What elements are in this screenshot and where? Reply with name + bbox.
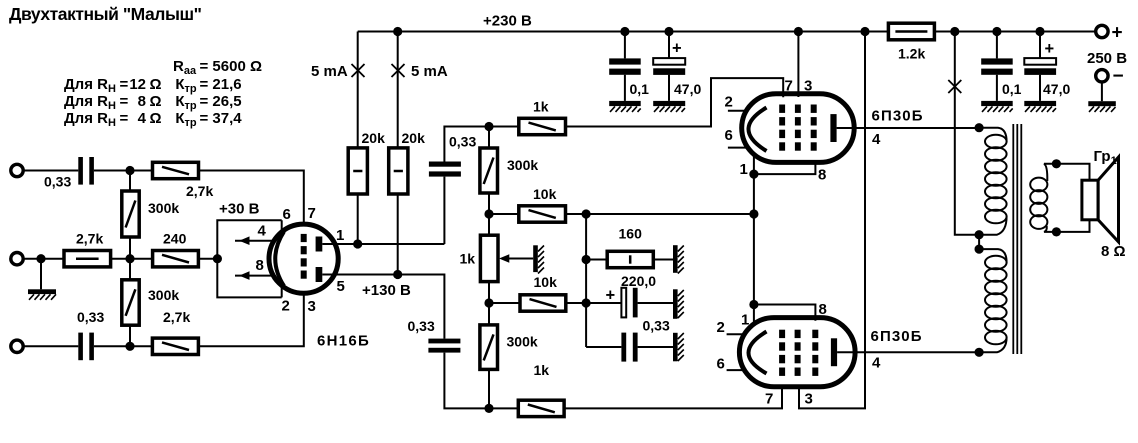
svg-text:2: 2 [717,319,725,336]
svg-text:220,0: 220,0 [621,273,656,289]
svg-text:2,7k: 2,7k [163,309,190,325]
svg-text:1k: 1k [460,251,476,267]
svg-text:4: 4 [258,223,267,240]
capacitor 47,0 right electrolytic [1039,32,1041,101]
resistor 300k lower-left [129,259,131,280]
resistor 300k middle [488,127,490,149]
wire C2 to node [94,345,152,347]
wire 1k bottom to lower output grid [564,386,782,409]
resistor 20k left [348,148,367,194]
svg-text:4: 4 [872,355,881,372]
wire V1 anode2 to lower coupling cap [322,275,444,339]
wire 2,7k to grid pin7 [199,171,304,225]
current mark x center-tap [948,80,961,93]
svg-text:300k: 300k [507,157,538,173]
resistor 1k bottom [518,400,564,416]
node mid-left [36,254,45,263]
resistor 300k lower [480,325,498,370]
svg-text:1: 1 [740,161,748,178]
svg-text:5: 5 [337,278,345,295]
svg-text:1: 1 [336,227,344,244]
svg-text:+230 В: +230 В [483,13,532,30]
V3 grid dashes g1 [779,330,785,376]
svg-text:+: + [606,287,616,305]
svg-text:7: 7 [765,391,773,408]
svg-text:5 mA: 5 mA [311,63,348,80]
ground minus terminal [1101,82,1103,101]
resistor 1k upper [519,118,566,134]
pot wiper arrow [508,258,533,260]
svg-text:4: 4 [872,131,881,148]
resistor 10k upper [489,213,519,215]
current mark x left [352,64,365,77]
svg-text:6: 6 [717,356,725,373]
node C [484,298,493,307]
tube V1 6N16B envelope [269,224,338,293]
V3 grid dashes g3 [812,330,818,376]
wire cap to node A and 1k [444,127,518,162]
svg-text:+: + [1112,23,1123,44]
T1 primary upper winding [979,128,1007,142]
svg-text:+130 В: +130 В [362,282,411,299]
svg-text:7: 7 [308,205,316,222]
svg-text:0,33: 0,33 [449,134,476,150]
V3 screen wire to rail [799,32,865,409]
V1 anode bar lower [316,267,323,282]
chassis for 0,33 cathode [673,333,678,362]
V1 grid dashes [301,234,307,279]
svg-text:10k: 10k [533,186,557,202]
ground input [40,259,42,290]
V3 grid dashes g2 [795,330,801,376]
wire terminal top to C1 [24,170,79,172]
svg-text:3: 3 [805,391,813,408]
capacitor 0,33 input top [78,157,83,185]
resistor 2,7k bottom [152,338,198,354]
wire 1k to upper output grid [566,78,784,126]
wire 10k to cathode column [566,213,754,215]
ground 47,0 left [653,101,685,106]
capacitor 220,0 electrolytic [586,302,621,304]
input terminal middle [11,253,23,265]
wire pot bottom [488,282,490,325]
speaker Gr1 [1082,180,1098,220]
T1 center tap link [978,235,980,249]
resistor 20k right [389,148,408,194]
node D [484,404,493,413]
T1 primary lower winding [979,249,1007,262]
current mark x right [392,64,405,77]
coupling capacitor 0,33 lower [428,339,460,344]
svg-text:2,7k: 2,7k [76,231,103,247]
T1 secondary winding [1044,164,1056,181]
svg-text:240: 240 [163,231,187,247]
tube V2 6P30B upper envelope [742,94,855,163]
V2 anode bar [830,114,836,142]
svg-text:0,33: 0,33 [408,318,435,334]
cathode network column [585,214,587,347]
chassis for 220,0 [673,289,678,319]
svg-text:8: 8 [818,167,826,184]
svg-text:6П30Б: 6П30Б [872,108,924,125]
svg-text:6: 6 [725,127,733,144]
transformer T1 core [1013,124,1021,354]
node A [484,122,493,131]
resistor 10k lower [489,302,520,304]
capacitor 0,1 right [996,32,998,101]
svg-text:10k: 10k [534,274,558,290]
capacitor 0,33 cathode [586,346,621,348]
V1 cathode arc [275,232,284,287]
svg-text:Двухтактный "Малыш": Двухтактный "Малыш" [9,4,202,24]
svg-text:7: 7 [785,78,793,95]
svg-text:8: 8 [819,301,827,318]
V2 grid dashes g1 [779,105,785,151]
svg-text:Для RН=4ΩКтр= 37,4: Для RН=4ΩКтр= 37,4 [64,110,242,129]
node bottom input [125,342,134,351]
svg-text:3: 3 [804,78,812,95]
svg-text:300k: 300k [148,200,179,216]
capacitor 47,0 left electrolytic [668,32,670,101]
resistor 240 [153,251,199,267]
V2 cathode arc [749,108,767,152]
wire rail to 20k left [357,32,359,245]
V2 heater stubs [728,111,748,148]
input terminal top [11,164,23,176]
svg-text:6: 6 [283,206,291,223]
capacitor 0,1 left [624,32,626,101]
ground 47,0 right [1024,101,1056,106]
svg-text:1: 1 [741,312,749,329]
T1 secondary nodes [1052,159,1061,168]
svg-text:+30 В: +30 В [219,201,260,218]
svg-text:47,0: 47,0 [674,81,701,97]
svg-text:8 Ω: 8 Ω [1101,243,1126,260]
svg-text:47,0: 47,0 [1043,81,1070,97]
V2 beam plate pin8 wire [754,161,816,175]
svg-text:1.2k: 1.2k [898,46,925,62]
wire 2,7k mid to node [111,258,153,260]
coupling capacitor 0,33 upper [429,162,461,167]
chassis for 160 [673,245,678,273]
output terminal minus [1096,70,1108,82]
resistor 1.2k [888,23,934,40]
svg-text:20k: 20k [362,130,386,146]
svg-text:160: 160 [619,226,643,242]
wire terminal bottom [24,345,79,347]
V2 anode wire to transformer [837,127,980,129]
wire 2,7k bottom to grid pin3 [198,293,303,346]
svg-text:8: 8 [256,257,264,274]
svg-text:−: − [1113,66,1124,87]
svg-text:0,33: 0,33 [77,309,104,325]
wire 300k1 to mid node [129,237,131,259]
svg-text:2: 2 [725,94,733,111]
cathode column V2-V3 [753,154,755,325]
resistor 2,7k top [153,162,199,178]
wire 240 to cathode box [198,258,217,260]
node mid [125,254,134,263]
wire 300k2 to bottom node [129,325,131,346]
svg-text:300k: 300k [507,334,538,350]
potentiometer 1k [480,235,498,281]
svg-text:2: 2 [282,298,290,315]
tube V3 6P30B lower envelope [739,318,855,387]
svg-text:300k: 300k [148,287,179,303]
svg-text:3: 3 [308,298,316,315]
node top input [125,166,134,175]
V2 screen wire from rail [797,32,799,98]
svg-text:0,33: 0,33 [44,174,71,190]
input terminal bottom [11,340,23,352]
supply rail +230V [358,31,1096,33]
svg-text:20k: 20k [402,130,426,146]
heater arrow pin 4 [235,240,273,242]
resistor 160 [586,259,607,261]
svg-text:0,1: 0,1 [630,81,650,97]
svg-text:0,1: 0,1 [1002,81,1022,97]
svg-text:6Н16Б: 6Н16Б [317,333,370,350]
V3 cathode arc [749,332,767,374]
wire lower cap to 1k bottom [444,353,518,409]
chassis for wiper [533,245,538,272]
wire rail to 20k right [397,32,399,275]
T1 primary nodes [975,123,984,132]
svg-text:1k: 1k [534,362,550,378]
svg-text:+: + [1045,40,1055,58]
wire rail to transformer center tap [955,32,979,235]
V3 anode wire to transformer [837,351,979,353]
resistor 300k upper-left [129,171,131,192]
ground 0,1 right [981,101,1013,106]
V3 beam plate pin8 wire [754,305,816,321]
output terminal plus [1096,25,1108,37]
V2 grid dashes g2 [795,105,801,151]
V3 anode bar [831,338,837,366]
wires secondary to speaker [1056,164,1089,232]
svg-text:6П30Б: 6П30Б [871,328,923,345]
cathode box +30V [217,220,281,297]
svg-text:+: + [672,40,682,58]
svg-text:5 mA: 5 mA [411,63,448,80]
wire V1 anode1 to coupling cap [322,177,444,244]
capacitor 0,33 input bottom [78,333,83,361]
node B [484,209,493,218]
svg-text:0,33: 0,33 [643,318,670,334]
rail junction dots [393,27,1045,36]
ground 0,1 left [609,101,641,106]
V3 heater stubs [727,334,745,370]
V1 anode bar upper [316,237,323,252]
wire C1 to node [94,170,153,172]
wire terminal mid [24,258,65,260]
heater arrow pin 8 [235,275,273,277]
svg-text:1k: 1k [533,99,549,115]
svg-text:250 В: 250 В [1087,50,1127,67]
V2 grid dashes g3 [811,105,817,151]
resistor 2,7k middle [64,251,111,267]
svg-text:2,7k: 2,7k [186,183,213,199]
